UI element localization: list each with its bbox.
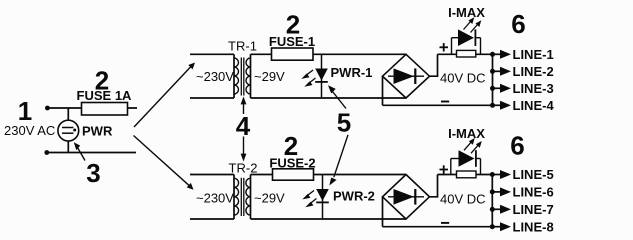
led PWR-2 emission arrow a: [307, 191, 315, 197]
wire secondary top rail to bridge: [251, 53, 407, 55]
led PWR-2 branch vertical: [322, 175, 324, 220]
svg-text:~29V: ~29V: [254, 190, 285, 205]
arrow LINE-4: [500, 101, 511, 110]
wire BR-2 positive branch: [430, 175, 438, 197]
output bus upper: [493, 54, 501, 105]
svg-text:~29V: ~29V: [254, 69, 285, 84]
svg-text:LINE-3: LINE-3: [513, 81, 554, 96]
transformer TR-2 primary top stub: [190, 174, 234, 176]
neon lamp PWR body: [58, 120, 79, 141]
svg-text:PWR-1: PWR-1: [331, 65, 373, 80]
transformer TR-1 primary top stub: [190, 53, 234, 55]
wire stub LINE-7: [492, 208, 500, 210]
svg-text:LINE-2: LINE-2: [513, 64, 554, 79]
svg-text:40V DC: 40V DC: [440, 191, 486, 206]
wire DC minus rail upper: [383, 104, 493, 106]
wire stub LINE-1: [493, 53, 501, 55]
resistor R1 body: [457, 50, 476, 57]
neon lamp PWR dot electrode: [73, 129, 76, 132]
callout arrow 5 down to PWR-2: [334, 135, 348, 177]
bridge BR-1 diode triangle: [394, 68, 415, 84]
transformer TR-1 primary vertical: [233, 54, 235, 98]
callout arrow 3 to lamp: [78, 148, 86, 161]
wire I-MAX branch left vertical lower: [450, 159, 452, 175]
led I-MAX lower emission arrow b: [471, 145, 478, 153]
wire I-MAX led lead left upper: [452, 37, 459, 39]
neon lamp PWR electrode top: [62, 127, 73, 129]
led I-MAX lower cathode bar: [475, 150, 477, 167]
svg-text:PWR: PWR: [82, 124, 113, 139]
led PWR-1 cathode bar: [315, 81, 328, 83]
fan-out arrow to TR-1: [134, 67, 191, 127]
led PWR-2 emission arrow b: [310, 199, 317, 205]
led PWR-1 triangle: [315, 69, 328, 81]
svg-text:~230V: ~230V: [196, 69, 234, 84]
bridge rectifier BR-2: [383, 175, 430, 220]
bridge BR-2 diode bar: [414, 189, 416, 205]
bridge BR-2 diode triangle: [394, 189, 415, 205]
label plus upper: [440, 46, 449, 48]
led PWR-1 emission arrow a: [306, 70, 314, 76]
output bus lower: [492, 175, 500, 227]
node dot LINE-4: [490, 103, 495, 108]
svg-text:2: 2: [286, 10, 300, 40]
wire stub LINE-5: [492, 174, 500, 176]
node dot LINE-8: [490, 224, 495, 229]
transformer TR-2 core: [240, 178, 242, 216]
wire BR-2 negative branch vertical: [382, 197, 384, 227]
svg-text:I-MAX: I-MAX: [448, 5, 485, 20]
wire output bus vertical lower: [491, 175, 493, 227]
transformer TR-2 primary bottom stub: [190, 218, 234, 220]
wire I-MAX branch right vertical lower: [480, 159, 482, 175]
wire lamp branch vertical: [67, 108, 69, 153]
led I-MAX upper cathode bar: [474, 29, 476, 46]
transformer TR-2 secondary vertical: [250, 175, 252, 220]
wire BR-1 positive branch: [430, 54, 438, 76]
led I-MAX upper triangle: [458, 29, 474, 46]
svg-text:2: 2: [95, 65, 109, 95]
transformer TR-1 secondary winding: [246, 58, 251, 94]
svg-text:2: 2: [284, 131, 298, 161]
led I-MAX lower triangle: [459, 150, 475, 167]
transformer TR-1 primary winding: [234, 58, 239, 94]
wire DC plus rail lower: [438, 174, 493, 176]
arrow LINE-5: [500, 170, 511, 179]
wire BR-1 negative branch vertical: [382, 76, 384, 105]
bridge BR-2 diode lead: [388, 196, 424, 198]
transformer TR-2 primary vertical: [233, 175, 235, 220]
svg-text:LINE-4: LINE-4: [513, 98, 555, 113]
fuse FUSE-1 body: [272, 48, 314, 60]
arrow LINE-8: [500, 222, 511, 231]
arrow LINE-7: [500, 205, 511, 214]
transformer TR-2 primary winding: [234, 178, 239, 215]
wire stub LINE-4: [493, 104, 501, 106]
arrow LINE-6: [500, 187, 511, 196]
transformer TR-1 secondary vertical: [250, 54, 252, 98]
callout arrow 5 up to PWR-1: [333, 92, 347, 109]
transformer TR-2 secondary winding: [246, 178, 251, 215]
node dot LINE-5: [490, 172, 495, 177]
wire secondary top rail to bridge lower: [251, 174, 407, 176]
svg-text:6: 6: [510, 130, 524, 160]
arrow LINE-1: [500, 50, 511, 59]
led I-MAX upper emission arrow a: [464, 22, 471, 30]
label minus lower: [441, 222, 449, 224]
arrow LINE-3: [500, 84, 511, 93]
wire DC plus rail upper: [438, 53, 493, 55]
led PWR-1 emission arrow b: [309, 78, 316, 84]
svg-text:LINE-7: LINE-7: [513, 202, 554, 217]
wire stub LINE-6: [492, 191, 500, 193]
label plus lower: [440, 169, 449, 171]
wire DC minus rail lower: [383, 226, 493, 228]
svg-text:PWR-2: PWR-2: [333, 189, 375, 204]
svg-text:LINE-5: LINE-5: [513, 167, 554, 182]
svg-text:6: 6: [511, 9, 525, 39]
node dot LINE-2: [490, 69, 495, 74]
wire I-MAX led lead right lower: [476, 158, 481, 160]
node dot LINE-7: [490, 207, 495, 212]
node dot LINE-6: [490, 189, 495, 194]
svg-text:LINE-8: LINE-8: [513, 219, 554, 234]
fuse FUSE 1A body: [82, 103, 128, 116]
wire top input rail: [47, 107, 137, 109]
wire I-MAX led lead right upper: [475, 37, 480, 39]
node dot input bottom terminal: [44, 150, 49, 155]
node dot LINE-1: [490, 52, 495, 57]
bridge rectifier BR-1: [383, 54, 430, 98]
wire output bus vertical upper: [492, 54, 494, 105]
wire stub LINE-3: [493, 87, 501, 89]
label minus upper: [441, 101, 449, 103]
svg-text:~230V: ~230V: [196, 190, 234, 205]
svg-text:40V DC: 40V DC: [440, 71, 486, 86]
svg-text:1: 1: [18, 96, 32, 126]
callout arrow 4 down to TR-2 core: [243, 137, 245, 155]
svg-text:3: 3: [86, 158, 100, 188]
bridge BR-1 diode bar: [414, 68, 416, 84]
led PWR-2 cathode bar: [316, 201, 329, 203]
transformer TR-1 primary bottom stub: [190, 97, 234, 99]
led PWR-2 triangle: [316, 189, 329, 201]
svg-text:TR-2: TR-2: [229, 161, 258, 176]
led I-MAX upper emission arrow b: [471, 25, 478, 33]
svg-text:I-MAX: I-MAX: [448, 126, 485, 141]
led I-MAX lower emission arrow a: [464, 142, 471, 150]
wire stub LINE-8: [492, 226, 500, 228]
callout arrow 4 up to TR-1 core: [243, 104, 245, 115]
wire I-MAX branch right vertical upper: [480, 38, 482, 55]
svg-text:LINE-1: LINE-1: [513, 47, 554, 62]
neon lamp PWR electrode bottom: [62, 132, 73, 134]
wire secondary bottom rail to bridge lower: [251, 218, 407, 220]
svg-text:TR-1: TR-1: [228, 39, 257, 54]
bridge BR-1 diode lead: [388, 75, 424, 77]
arrow LINE-2: [500, 67, 511, 76]
fuse FUSE-2 body: [273, 169, 314, 180]
svg-text:LINE-6: LINE-6: [513, 185, 554, 200]
wire stub LINE-2: [493, 70, 501, 72]
transformer TR-1 core: [240, 58, 242, 96]
svg-text:230V AC: 230V AC: [4, 123, 55, 138]
fan-out arrow to TR-2: [134, 136, 190, 186]
wire I-MAX led lead left lower: [451, 158, 459, 160]
wire bottom input rail: [47, 152, 136, 154]
resistor R2 body: [457, 171, 477, 178]
led PWR-1 branch vertical: [321, 54, 323, 98]
node dot input top terminal: [45, 106, 50, 111]
node dot LINE-3: [490, 86, 495, 91]
wire I-MAX branch left vertical upper: [451, 38, 453, 55]
wire secondary bottom rail to bridge: [251, 97, 407, 99]
svg-text:5: 5: [337, 108, 351, 138]
